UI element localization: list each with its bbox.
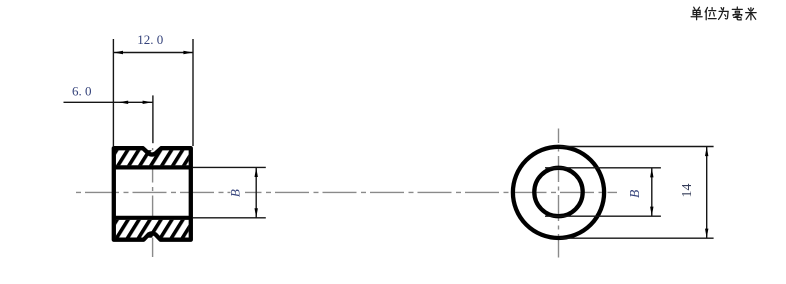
extension lines for B (right view) <box>545 168 661 216</box>
extension line left (for 12.0) <box>112 39 114 146</box>
right view vertical centerline <box>558 129 560 258</box>
extension lines for 14 <box>560 147 714 239</box>
dimension line 6.0 <box>64 101 154 104</box>
extension line for 6.0 (groove center) <box>152 95 154 143</box>
dimension line B (right view) <box>650 168 653 216</box>
位 <box>705 7 716 19</box>
left view section outline with grooves <box>114 148 191 240</box>
dimension text B (right view) <box>627 190 642 198</box>
svg-text:6. 0: 6. 0 <box>72 83 92 98</box>
left view vertical centerline <box>152 148 154 257</box>
svg-text:14: 14 <box>680 184 695 198</box>
dimension line B (left view) <box>255 167 258 217</box>
extension lines for B (left view) <box>193 167 266 217</box>
单 <box>691 7 702 20</box>
extension line right (for 12.0) <box>192 39 194 146</box>
right view outer circle <box>513 147 604 238</box>
svg-text:B: B <box>227 189 242 197</box>
bore top line (section) <box>114 165 191 169</box>
svg-text:12. 0: 12. 0 <box>137 32 163 47</box>
dimension text 6.0 <box>72 83 92 98</box>
dimension line 14 <box>705 147 708 239</box>
note text: unit is millimeter (drawn glyphs) <box>691 7 756 20</box>
为 <box>719 8 729 20</box>
dimension text 14 <box>680 184 695 198</box>
bore bottom line (section) <box>114 216 191 220</box>
svg-text:B: B <box>627 190 642 198</box>
dimension line 12.0 <box>113 51 193 54</box>
hatch top band <box>116 150 189 165</box>
毫 <box>732 7 742 20</box>
dimension text B (left view) <box>227 185 245 201</box>
hatch bottom band <box>116 220 189 238</box>
right view bore circle <box>534 168 582 216</box>
米 <box>746 8 756 20</box>
dimension text 12.0 <box>137 32 163 47</box>
axis centerline (common horizontal axis, dash-dot gray) <box>76 191 617 193</box>
